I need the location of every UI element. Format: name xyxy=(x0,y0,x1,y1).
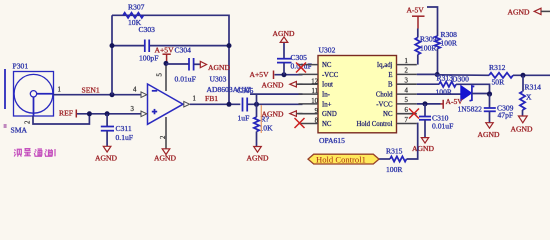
diode D300 xyxy=(452,74,490,113)
node C305d junction xyxy=(282,72,287,77)
svg-text:SEN1: SEN1 xyxy=(82,86,100,95)
ground AGND below C311 xyxy=(95,146,117,162)
svg-text:A-5V: A-5V xyxy=(407,6,425,15)
svg-text:R309: R309 xyxy=(420,35,437,44)
ground AGND top right xyxy=(508,8,550,17)
svg-text:100R: 100R xyxy=(441,39,458,48)
svg-text:Hold Control1: Hold Control1 xyxy=(316,154,366,164)
svg-text:NC: NC xyxy=(383,111,393,118)
svg-text:AGND: AGND xyxy=(511,125,533,134)
no-connect X pin8 xyxy=(295,118,305,128)
wire SEN1 net xyxy=(54,94,141,96)
pin names left column xyxy=(322,62,339,128)
pin numbers left xyxy=(311,78,318,124)
no-connect X pin14 xyxy=(296,63,306,73)
pin 13 stub left xyxy=(299,73,319,75)
power A+5V at op-amp xyxy=(155,46,175,64)
svg-text:A-5V: A-5V xyxy=(446,97,464,106)
svg-text:R307: R307 xyxy=(128,3,145,12)
svg-text:1: 1 xyxy=(405,58,408,65)
IC U302 OPA615 xyxy=(318,46,397,146)
wire REF net xyxy=(77,113,141,115)
svg-text:5: 5 xyxy=(405,97,409,104)
node output feedback junction xyxy=(227,102,232,107)
svg-text:1: 1 xyxy=(193,96,196,103)
wire pin7 to R315 xyxy=(407,124,418,160)
svg-text:100pF: 100pF xyxy=(139,54,158,63)
pin 2 stub right xyxy=(397,73,417,75)
wire R312 to edge xyxy=(513,74,550,76)
svg-text:R312: R312 xyxy=(489,63,506,72)
svg-text:100R: 100R xyxy=(436,88,453,97)
pin 5 stub right xyxy=(397,103,417,105)
svg-text:-VCC: -VCC xyxy=(376,101,393,108)
svg-text:9: 9 xyxy=(315,108,319,115)
node REF junction P301 xyxy=(87,111,92,116)
svg-text:C303: C303 xyxy=(139,25,156,34)
node A+5V junction xyxy=(164,61,169,66)
svg-text:2: 2 xyxy=(25,120,32,124)
svg-text:7: 7 xyxy=(405,117,409,124)
svg-text:AGND: AGND xyxy=(208,63,230,72)
ground AGND below R314 xyxy=(511,116,533,134)
wire feedback left vertical xyxy=(111,15,113,94)
svg-text:-VCC: -VCC xyxy=(322,72,339,79)
connector P301 xyxy=(11,62,61,135)
pin 7 stub right xyxy=(397,123,417,125)
svg-text:A+5V: A+5V xyxy=(250,70,270,79)
node diode C309 junction xyxy=(487,91,492,96)
svg-text:R314: R314 xyxy=(525,83,542,92)
no-connect X pin6 xyxy=(409,109,419,119)
svg-text:4: 4 xyxy=(133,87,137,94)
svg-text:X: X xyxy=(526,92,532,101)
svg-text:4: 4 xyxy=(405,87,409,94)
svg-text:6: 6 xyxy=(405,107,409,114)
svg-text:E: E xyxy=(388,72,392,79)
svg-text:Iout: Iout xyxy=(322,82,333,89)
ground AGND below R? xyxy=(247,147,269,163)
ground AGND below op-amp xyxy=(154,149,176,163)
pin numbers right xyxy=(405,58,409,124)
resistor R315 xyxy=(379,146,407,174)
pin names right column xyxy=(356,62,393,128)
svg-text:3: 3 xyxy=(405,78,409,85)
svg-text:Iq,adj: Iq,adj xyxy=(377,62,393,69)
resistor R308 xyxy=(427,7,458,74)
svg-text:AGND: AGND xyxy=(262,80,284,89)
wire B row bend to junction xyxy=(456,84,490,94)
wire C303 rail xyxy=(112,45,145,47)
resistor R307 xyxy=(123,3,145,27)
svg-text:R313: R313 xyxy=(437,74,454,83)
pin 1 stub right xyxy=(397,64,417,66)
capacitor C304 xyxy=(166,45,200,83)
svg-text:10: 10 xyxy=(311,98,318,105)
wire Chold row xyxy=(417,93,461,95)
svg-text:Hold Control: Hold Control xyxy=(356,121,392,128)
svg-text:8: 8 xyxy=(315,118,319,125)
svg-text:12: 12 xyxy=(311,78,318,85)
svg-text:AGND: AGND xyxy=(154,154,176,163)
svg-text:A+5V: A+5V xyxy=(155,46,175,55)
pin 14 stub NC left xyxy=(299,64,319,66)
node C303 rail right xyxy=(227,43,232,48)
pin 4 stub right xyxy=(397,93,417,95)
wire E row to R312 xyxy=(417,73,437,75)
node REF junction C311 xyxy=(105,111,110,116)
svg-text:1uF: 1uF xyxy=(238,114,250,123)
svg-text:GND: GND xyxy=(322,111,337,118)
capacitor C311 xyxy=(101,114,133,146)
svg-text:AGND: AGND xyxy=(247,154,269,163)
wire stray left-edge vertical xyxy=(4,69,6,109)
svg-text:D300: D300 xyxy=(452,74,469,83)
pin 10 stub left xyxy=(299,103,319,105)
svg-text:0.01uF: 0.01uF xyxy=(175,75,196,84)
svg-text:3: 3 xyxy=(131,106,135,113)
node 1uF output junction xyxy=(254,102,259,107)
svg-text:OPA615: OPA615 xyxy=(319,136,345,145)
wire feedback top rail xyxy=(112,15,229,104)
svg-text:0.1uF: 0.1uF xyxy=(116,133,134,142)
power A+5V to U302 pin13 xyxy=(250,70,303,79)
svg-text:AGND: AGND xyxy=(508,8,530,17)
svg-text:R315: R315 xyxy=(386,146,403,155)
capacitor C306 decoupling U302 xyxy=(277,43,312,75)
node output junction R314 xyxy=(521,73,526,78)
pin 12 stub left xyxy=(299,83,319,85)
ground AGND below C309 xyxy=(478,123,500,139)
svg-text:50R: 50R xyxy=(492,77,506,86)
ground AGND arrow to pin12 xyxy=(262,80,303,89)
svg-text:5: 5 xyxy=(157,73,164,77)
resistor R313 xyxy=(417,74,456,97)
svg-text:In-: In- xyxy=(322,92,331,99)
svg-text:47pF: 47pF xyxy=(498,111,514,120)
svg-text:AGND: AGND xyxy=(262,110,284,119)
wire cap to U302 In+ xyxy=(247,103,302,105)
capacitor C309 xyxy=(484,94,514,123)
svg-text:AGND: AGND xyxy=(478,130,500,139)
port REF xyxy=(59,109,76,118)
svg-text:0.01uF: 0.01uF xyxy=(432,121,453,130)
pin 9 stub left xyxy=(299,113,319,115)
op-amp U303 xyxy=(131,63,252,148)
pin 3 stub right xyxy=(397,83,417,85)
power A-5V top xyxy=(407,6,425,29)
pin 6 stub right xyxy=(397,113,417,115)
svg-text:FB1: FB1 xyxy=(205,94,218,103)
ground AGND below C310 xyxy=(412,138,434,153)
svg-text:P301: P301 xyxy=(13,62,29,71)
svg-text:U302: U302 xyxy=(319,46,336,55)
ground AGND arrow right of C304 xyxy=(200,61,230,72)
pin 11 stub left xyxy=(299,93,319,95)
port Hold Control1 xyxy=(308,154,379,164)
svg-text:U303: U303 xyxy=(210,75,227,84)
capacitor C305 1uF coupling xyxy=(237,86,254,123)
wire junction riser to In- row xyxy=(250,93,303,95)
svg-text:NC: NC xyxy=(322,121,332,128)
node left-edge speck xyxy=(4,124,7,128)
node C303 rail left xyxy=(110,43,115,48)
svg-text:B: B xyxy=(388,82,393,89)
svg-text:11: 11 xyxy=(311,88,318,95)
power A-5V at pin5 xyxy=(441,97,464,109)
svg-text:C311: C311 xyxy=(116,124,132,133)
pin 8 stub left xyxy=(299,123,319,125)
svg-text:C304: C304 xyxy=(175,45,192,54)
svg-text:AGND: AGND xyxy=(95,154,117,163)
resistor R312 xyxy=(489,63,513,86)
wire op-amp output to U302 xyxy=(190,103,240,105)
wire pin5 row xyxy=(417,103,441,105)
node SEN1 junction xyxy=(110,92,115,97)
node R308 E-row junction xyxy=(435,72,440,77)
wire P301 pin2 to REF node xyxy=(33,114,89,124)
svg-text:AGND: AGND xyxy=(412,144,434,153)
svg-text:Chold: Chold xyxy=(376,92,393,99)
wire orange directive xyxy=(260,105,262,133)
svg-text:REF: REF xyxy=(59,109,73,118)
resistor R314 xyxy=(520,75,541,115)
resistor R309 xyxy=(415,29,437,65)
ground AGND arrow to pin9 xyxy=(262,110,303,119)
capacitor C310 xyxy=(419,104,453,137)
ground AGND above C306 xyxy=(273,29,295,43)
svg-text:NC: NC xyxy=(322,62,332,69)
svg-text:2: 2 xyxy=(405,68,409,75)
node C310 junction xyxy=(423,101,428,106)
title 测量通道1 xyxy=(14,149,55,157)
svg-text:0.01uF: 0.01uF xyxy=(291,62,312,71)
resistor R? 10K to ground xyxy=(254,104,273,146)
svg-text:1: 1 xyxy=(58,86,61,93)
svg-text:SMA: SMA xyxy=(11,126,28,135)
svg-text:100R: 100R xyxy=(386,165,403,174)
svg-text:In+: In+ xyxy=(322,101,332,108)
capacitor C303 xyxy=(139,25,159,63)
